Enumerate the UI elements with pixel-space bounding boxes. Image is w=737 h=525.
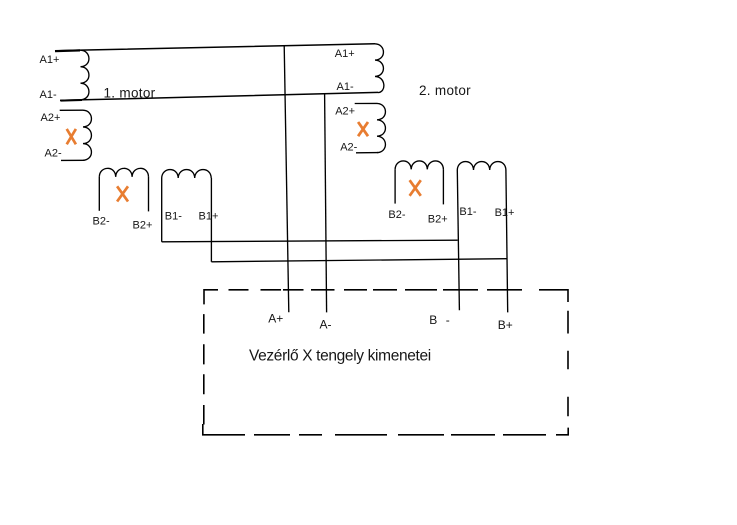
coil L2-B1 (2. motor winding B1) [457, 162, 506, 170]
svg-text:A1-: A1- [337, 81, 354, 93]
coil L1-B1 right lead [210, 178, 212, 262]
wire B+ bus (motor1 B1+ to motor2 B1+ lead) [211, 259, 507, 262]
coil L1-B1 (1. motor winding B1) [162, 170, 212, 178]
svg-text:B2+: B2+ [133, 219, 153, 231]
coil L1-B2 right lead [148, 177, 150, 212]
wire A- vertical (A1- bus down to controller A-) [325, 94, 327, 313]
svg-text:B2+: B2+ [428, 213, 448, 225]
svg-text:B1+: B1+ [495, 207, 515, 219]
wire A+ vertical (top bus down to controller A+) [284, 45, 289, 312]
coil L2-A2 top lead [355, 102, 377, 104]
controller box (dashed) bottom edge [203, 424, 568, 435]
controller box (dashed) top edge [204, 290, 568, 305]
svg-text:A2+: A2+ [41, 112, 61, 124]
wire A1+ top bus (motor1 A1 top to motor2 A1 top) [55, 44, 375, 51]
wire A1- thick stub [61, 99, 83, 102]
svg-text:A2-: A2- [340, 141, 357, 153]
coil L2-A2 bottom lead [356, 152, 379, 154]
svg-text:B2-: B2- [388, 209, 405, 221]
svg-text:B1-: B1- [459, 206, 476, 218]
coil L2-B2 right lead [442, 169, 444, 204]
wire A1- bus (motor1 A1 bottom to motor2 A1 bottom) [60, 92, 378, 100]
svg-text:A2-: A2- [45, 147, 62, 159]
svg-text:A1+: A1+ [40, 54, 60, 66]
wire B- bus (motor1 B1- to motor2 B1- lead) [162, 240, 458, 242]
coil L1-A2 top lead [60, 109, 83, 111]
controller box (dashed) right edge [567, 311, 569, 416]
svg-text:B1+: B1+ [199, 211, 219, 223]
svg-text:B+: B+ [498, 318, 513, 332]
coil L2-B2 left lead [394, 169, 396, 203]
X mark A2 (motor 1) [67, 129, 76, 144]
X mark A2 (motor 2) [358, 122, 368, 136]
svg-text:A1+: A1+ [335, 48, 355, 60]
svg-text:A-: A- [320, 318, 332, 332]
coil L2-A2 (2. motor winding A2) [377, 103, 385, 152]
svg-text:B2-: B2- [93, 215, 110, 227]
svg-text:A1-: A1- [40, 89, 57, 101]
svg-text:A2+: A2+ [335, 105, 355, 117]
svg-text:B1-: B1- [165, 210, 182, 222]
coil L1-B2 (1. motor winding B2) [99, 168, 148, 176]
coil L1-B2 left lead [98, 177, 100, 211]
svg-text:1. motor: 1. motor [104, 86, 156, 101]
controller box (dashed) left edge [203, 314, 205, 424]
coil L2-B1 right lead / wire to controller B+ [506, 170, 508, 312]
svg-text:A+: A+ [268, 312, 283, 326]
coil L1-B1 left lead [161, 178, 163, 242]
X mark B2 (motor 2) [410, 180, 421, 196]
svg-text:2. motor: 2. motor [419, 83, 471, 98]
svg-text:B-: B- [429, 313, 450, 327]
coil L2-B2 (2. motor winding B2) [395, 161, 443, 169]
coil L1-A1 (1. motor winding A1) [81, 50, 89, 100]
wire A1+ thick stub [55, 49, 80, 52]
X mark B2 (motor 1) [117, 186, 128, 201]
coil L2-A1 (2. motor winding A1) [375, 44, 384, 93]
coil L1-A2 bottom lead [61, 159, 85, 161]
coil L1-A2 (1. motor winding A2) [83, 110, 91, 160]
svg-text:Vezérlő X tengely kimenetei: Vezérlő X tengely kimenetei [249, 348, 431, 365]
coil L2-B1 left lead / wire to controller B- [457, 170, 459, 310]
